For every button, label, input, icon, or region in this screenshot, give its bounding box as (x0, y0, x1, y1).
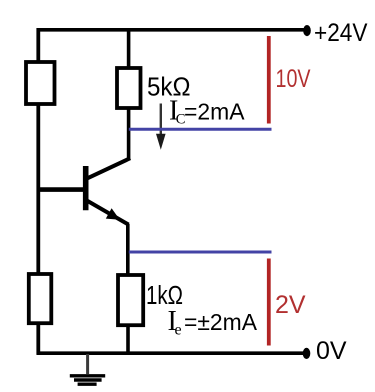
svg-text:e: e (175, 322, 182, 339)
node collector level (blue) (129, 128, 272, 131)
wire emitter vertical (126, 224, 130, 277)
resistor R 5k (117, 68, 141, 108)
node emitter level (blue) (129, 251, 272, 254)
wire base from divider (38, 187, 84, 192)
ground (70, 354, 105, 384)
resistor R 1k (118, 275, 143, 325)
node +24V terminal dot (303, 25, 311, 36)
label Ic=2mA (169, 96, 245, 128)
voltage marker 2V (red bar) (267, 259, 271, 346)
wire 1k to bottom rail (126, 324, 130, 355)
svg-text:+24V: +24V (314, 19, 368, 47)
resistor lower bias (left bottom) (29, 274, 52, 323)
svg-text:1kΩ: 1kΩ (146, 282, 183, 310)
voltage marker 10V (red bar) (267, 36, 271, 124)
svg-text:=2mA: =2mA (184, 99, 245, 125)
svg-text:=±2mA: =±2mA (184, 309, 257, 335)
wire top rail +24V (37, 28, 307, 32)
current arrow Ic (156, 104, 166, 150)
wire 5k branch from top rail (127, 28, 131, 70)
wire collector diagonal to transistor (86, 158, 131, 179)
wire collector vertical (127, 106, 131, 160)
resistor upper bias (left top) (26, 62, 55, 104)
svg-text:2V: 2V (275, 291, 306, 319)
node 0V terminal dot (303, 348, 311, 359)
wire bottom rail 0V (37, 351, 307, 355)
svg-text:0V: 0V (316, 337, 347, 365)
wire left vertical rail (36, 28, 40, 355)
svg-text:10V: 10V (276, 65, 311, 93)
transistor Q1 (NPN) (86, 166, 129, 225)
label Ie=+-2mA (168, 306, 258, 339)
